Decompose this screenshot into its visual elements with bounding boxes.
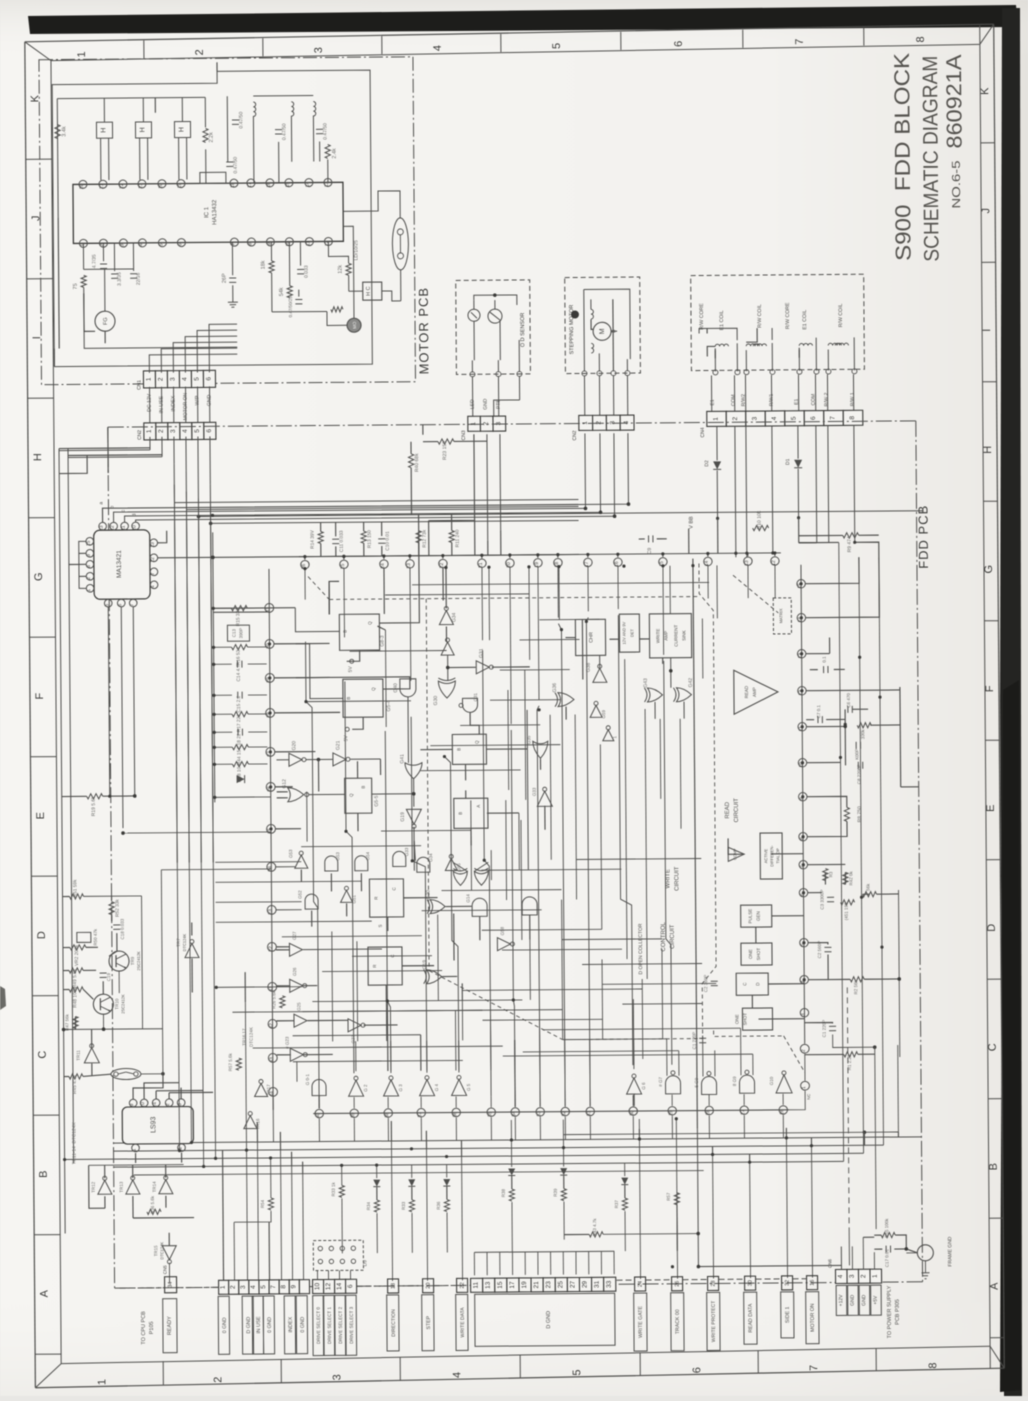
svg-text:20: 20 (79, 183, 85, 189)
svg-text:390P: 390P (238, 628, 243, 639)
svg-text:R51 59k: R51 59k (72, 879, 78, 898)
svg-text:13: 13 (99, 525, 105, 531)
svg-text:1: 1 (872, 1274, 879, 1278)
svg-text:SINK: SINK (681, 630, 686, 641)
svg-text:COM: COM (811, 394, 817, 406)
svg-text:G 3: G 3 (398, 1084, 403, 1092)
svg-text:G 2: G 2 (363, 1084, 368, 1092)
svg-text:E1 COIL: E1 COIL (802, 310, 808, 330)
svg-text:C9: C9 (647, 547, 653, 554)
resistor 54k (287, 286, 292, 298)
mode box (200, 172, 226, 183)
DS label boxes (313, 1296, 324, 1356)
svg-text:1: 1 (582, 421, 589, 425)
gate G34a buf (439, 610, 453, 624)
capacitor C1 220P b (699, 1037, 706, 1039)
svg-text:6: 6 (810, 416, 817, 420)
wire write gates (599, 655, 601, 668)
wire fg (82, 243, 84, 269)
transistor TR14 buf (159, 1180, 173, 1194)
svg-text:12: 12 (110, 525, 116, 531)
svg-text:H: H (178, 127, 185, 132)
wires CN1-CN2 (149, 387, 151, 423)
box WRITE AMP CURRENT SINK (649, 614, 691, 658)
gate G27b buf (348, 1019, 361, 1032)
svg-text:25: 25 (557, 1281, 564, 1289)
gate TR16 buf (244, 1116, 257, 1129)
stepping motor boundary (565, 277, 641, 374)
svg-text:TO POWER SUPPLY: TO POWER SUPPLY (887, 1285, 893, 1338)
svg-text:10: 10 (314, 1283, 321, 1291)
svg-text:0.033: 0.033 (304, 265, 310, 278)
svg-text:CN1: CN1 (136, 380, 142, 390)
diode D1 (794, 460, 802, 468)
svg-text:2: 2 (860, 1274, 867, 1278)
svg-text:54k: 54k (279, 287, 285, 296)
MO motor circle (347, 318, 361, 332)
svg-text:17: 17 (509, 1281, 516, 1289)
svg-text:4: 4 (451, 1372, 463, 1378)
wire g row (276, 949, 290, 951)
svg-text:R49 5.6k: R49 5.6k (72, 968, 78, 988)
capacitor 0.033m (297, 268, 304, 270)
svg-text:TR9: TR9 (130, 956, 135, 965)
svg-text:5: 5 (194, 429, 201, 433)
svg-text:17: 17 (247, 182, 253, 188)
dashed link cn5 (120, 1287, 165, 1289)
wire bus low1 (113, 1137, 921, 1143)
resistor R43 4.7k (589, 1232, 603, 1237)
coil wires (226, 96, 229, 162)
svg-text:D GND: D GND (246, 1316, 252, 1333)
resistor R51 59k (70, 894, 84, 899)
wire g20-21 (276, 759, 288, 761)
svg-text:2: 2 (165, 1103, 171, 1106)
svg-text:FRAME GND: FRAME GND (947, 1236, 953, 1266)
wire bus top h5 (216, 62, 218, 71)
svg-text:4: 4 (837, 1274, 844, 1278)
gate G14b and (522, 897, 537, 915)
svg-text:TO CPU PCB: TO CPU PCB (141, 1311, 147, 1345)
svg-text:3: 3 (752, 416, 759, 420)
IC LS93 (122, 1107, 193, 1145)
svg-text:P105: P105 (149, 1321, 155, 1334)
svg-text:G25: G25 (296, 1002, 301, 1011)
svg-text:1: 1 (713, 417, 720, 421)
svg-text:C19: C19 (106, 973, 111, 982)
svg-text:J: J (980, 208, 992, 214)
svg-text:11: 11 (305, 241, 311, 246)
svg-text:WRITE PROTECT: WRITE PROTECT (711, 1301, 717, 1342)
svg-text:R11 240: R11 240 (455, 529, 461, 547)
hall sensors H1-H3 (96, 122, 112, 138)
svg-text:34: 34 (168, 1282, 174, 1288)
svg-text:32: 32 (785, 1280, 791, 1286)
svg-text:1: 1 (146, 429, 153, 433)
svg-text:4.7/35: 4.7/35 (91, 254, 97, 268)
svg-text:9: 9 (290, 1285, 297, 1289)
svg-text:COM: COM (731, 394, 737, 406)
svg-text:3: 3 (170, 429, 177, 433)
resistor R26 5.6k (280, 996, 285, 1008)
svg-text:R37: R37 (614, 1200, 619, 1209)
svg-text:G53: G53 (288, 849, 293, 858)
gate G12 nor (288, 788, 304, 802)
wire long run e (444, 756, 458, 1072)
svg-text:5: 5 (193, 377, 200, 381)
svg-text:22/16: 22/16 (136, 272, 142, 285)
svg-text:2.2k: 2.2k (209, 132, 215, 143)
svg-text:TR13: TR13 (119, 1181, 124, 1193)
svg-text:ONE: ONE (748, 949, 753, 959)
svg-text:G31: G31 (479, 648, 485, 658)
svg-text:R23 150: R23 150 (442, 441, 448, 460)
svg-text:LS93: LS93 (150, 1117, 157, 1134)
scan black bar right (1000, 8, 1022, 1396)
diode resistor row (373, 1180, 380, 1187)
capacitor C7 0.1 (817, 716, 819, 723)
svg-text:14: 14 (305, 182, 311, 188)
capacitor 0.47/50 mid (226, 161, 233, 163)
svg-text:3: 3 (313, 47, 325, 53)
svg-text:MATRIX: MATRIX (778, 608, 783, 623)
wire bus h3 (199, 511, 924, 517)
svg-text:# G7: # G7 (658, 1076, 663, 1086)
svg-text:LED: LED (470, 399, 476, 409)
connector CN2b (579, 415, 593, 430)
wire right verticals low (875, 1047, 876, 1229)
resistor R55 100k (881, 1232, 895, 1237)
diode R39 (560, 1168, 567, 1175)
capacitor 12k (346, 263, 351, 275)
dashed diag to NC (784, 1036, 805, 1073)
capacitor 0.47/50 a (232, 119, 239, 121)
capacitor 3.3/35 (111, 273, 118, 275)
svg-text:21: 21 (533, 1281, 540, 1289)
diode R38 (508, 1169, 515, 1176)
svg-text:GEN: GEN (756, 911, 761, 921)
svg-text:IC 1: IC 1 (204, 206, 210, 218)
svg-text:R8 750: R8 750 (857, 806, 863, 822)
motor circuit outline box (52, 70, 372, 366)
svg-text:10: 10 (132, 525, 138, 531)
svg-text:8: 8 (247, 242, 253, 245)
svg-text:0.47/50: 0.47/50 (281, 123, 287, 140)
svg-text:B: B (456, 748, 461, 751)
gate G51 inv (340, 890, 352, 902)
svg-text:NO.6-5: NO.6-5 (951, 160, 963, 208)
capacitor C6 470 (847, 706, 849, 713)
svg-text:12: 12 (325, 1282, 332, 1290)
svg-text:18k: 18k (261, 260, 267, 269)
connector SIDE 1 (782, 1276, 793, 1290)
flip-flop L2 (368, 947, 402, 985)
resistor R52 33k (109, 902, 114, 915)
capacitor C2 560P (824, 946, 831, 948)
svg-text:Q: Q (371, 687, 376, 691)
svg-text:D: D (36, 931, 48, 939)
FDD PCB boundary dash-dot (108, 421, 916, 427)
resistor R1 2.25 (844, 1052, 858, 1057)
wire v drops mid (514, 1040, 517, 1107)
resistor R36 5.6k b (147, 1209, 161, 1214)
svg-text:G53: G53 (335, 852, 340, 861)
svg-text:4: 4 (138, 243, 144, 246)
junction dots field (268, 642, 271, 645)
flip-flop CD (736, 973, 768, 995)
svg-text:I: I (981, 329, 993, 332)
svg-text:ONE: ONE (734, 1014, 739, 1024)
gate G58 inv (497, 938, 510, 951)
svg-text:0.47/50: 0.47/50 (322, 123, 328, 140)
svg-text:TR10: TR10 (114, 998, 119, 1010)
svg-text:R/W2: R/W2 (741, 394, 747, 407)
svg-text:27: 27 (569, 1281, 576, 1289)
gate G31 nand (462, 698, 477, 712)
svg-text:G54: G54 (365, 851, 370, 860)
svg-text:C6 470: C6 470 (846, 693, 851, 708)
svg-text:R33: R33 (401, 1201, 406, 1210)
connector MOTOR ON (807, 1276, 818, 1290)
svg-text:R42 0k: R42 0k (848, 870, 853, 885)
gate G53 inv (295, 855, 308, 868)
MOTOR PCB boundary (dash-dot) (39, 57, 416, 385)
svg-text:8 G9: 8 G9 (732, 1076, 737, 1086)
capacitor C11 0.033 (332, 538, 339, 540)
resistor R51 190 (841, 900, 855, 905)
wire long run l (664, 661, 672, 1065)
wire long run g (511, 730, 515, 1096)
svg-text:3: 3 (177, 1103, 183, 1106)
svg-text:DET: DET (629, 628, 634, 637)
svg-text:TR11: TR11 (76, 1050, 81, 1061)
svg-text:3: 3 (849, 1274, 856, 1278)
wire long run k (618, 615, 633, 1065)
box ONE SHOT 2 (742, 1008, 772, 1030)
gate G40 and (400, 679, 416, 697)
wire ff2 (296, 643, 343, 698)
svg-text:MO: MO (352, 321, 357, 329)
svg-text:H: H (32, 453, 44, 461)
svg-text:DTC124K: DTC124K (159, 1242, 164, 1260)
svg-text:R39: R39 (553, 1188, 558, 1197)
svg-text:2: 2 (158, 429, 165, 433)
wire long run b (345, 681, 354, 1073)
wire r40 (410, 442, 412, 454)
wires U2 left (79, 541, 86, 588)
resistor 330k a (857, 723, 871, 728)
resistor 18k (269, 261, 274, 273)
resistor R55 1k (339, 1185, 344, 1197)
svg-text:C: C (37, 1051, 49, 1059)
gate G30 xor (438, 681, 455, 698)
svg-text:2: 2 (732, 417, 739, 421)
wire long run j (586, 617, 592, 1095)
svg-text:G33: G33 (532, 787, 537, 796)
svg-text:3: 3 (495, 421, 502, 425)
svg-text:G 0-1: G 0-1 (305, 1073, 310, 1085)
wire h800s (414, 841, 415, 861)
svg-text:D: D (986, 924, 998, 932)
resistor R 2.2k (203, 128, 208, 142)
frame corner slash bottom-left (35, 1364, 61, 1388)
svg-text:3: 3 (800, 1013, 806, 1016)
wire frame gnd (874, 1234, 881, 1236)
resistor VR2 200k (70, 945, 86, 950)
transistor TR15 buf (162, 1246, 176, 1260)
svg-text:16: 16 (810, 1280, 816, 1286)
wire lower mid (270, 242, 272, 261)
svg-text:B: B (38, 1170, 50, 1177)
wires bottom pins (318, 1098, 320, 1109)
svg-text:R52 33k: R52 33k (115, 899, 121, 918)
svg-text:23: 23 (406, 563, 412, 569)
svg-text:3.3/35: 3.3/35 (117, 272, 123, 286)
svg-text:TR15: TR15 (153, 1245, 158, 1257)
svg-text:CN4: CN4 (700, 427, 706, 437)
svg-text:DRIVE SELECT 0: DRIVE SELECT 0 (316, 1307, 321, 1345)
svg-text:2.4k: 2.4k (332, 148, 338, 159)
box 12V 5V DET (619, 614, 639, 652)
gate G53b nand (325, 856, 338, 871)
svg-text:WRITE GATE: WRITE GATE (638, 1306, 644, 1338)
wire bus h2 (186, 506, 578, 509)
connector WRITE DATA (457, 1278, 468, 1292)
svg-text:1: 1 (801, 1086, 807, 1089)
svg-text:21: 21 (99, 183, 105, 189)
svg-text:SCHEMATIC DIAGRAM: SCHEMATIC DIAGRAM (919, 56, 944, 262)
svg-text:G58: G58 (500, 926, 505, 935)
wire ls93 (133, 1074, 163, 1099)
connector CN5 odd cells (471, 1278, 483, 1292)
svg-text:2: 2 (483, 421, 490, 425)
svg-text:3: 3 (609, 421, 616, 425)
svg-text:16: 16 (266, 182, 272, 188)
wire trans area (63, 895, 70, 897)
wire coil drops (278, 142, 280, 183)
gate COMP (728, 847, 744, 861)
read amp triangle (734, 670, 778, 714)
wire hall top feed (154, 98, 156, 113)
svg-text:+12V: +12V (838, 1294, 844, 1307)
svg-text:G8-3: G8-3 (379, 635, 385, 646)
svg-text:12: 12 (324, 240, 330, 246)
gate G20 buffer (289, 753, 302, 766)
connector STEP (423, 1279, 434, 1293)
capacitor C2 360P (711, 980, 718, 982)
svg-text:R/W 2: R/W 2 (824, 392, 830, 406)
svg-text:R34: R34 (366, 1202, 371, 1211)
transistor TR10 (93, 994, 113, 1014)
svg-text:0.47/50: 0.47/50 (233, 157, 239, 174)
svg-text:8: 8 (86, 565, 92, 568)
svg-text:R/W 1: R/W 1 (850, 392, 856, 406)
wire hybrid top bus (299, 553, 781, 557)
wire read rc cluster (806, 689, 900, 692)
connector CN4 (707, 411, 727, 426)
svg-text:G 6: G 6 (641, 1082, 646, 1090)
svg-text:WRITE DATA: WRITE DATA (460, 1307, 466, 1338)
resistor R48 100k (69, 987, 83, 992)
capacitor 0.47/50/25 (295, 298, 302, 300)
svg-text:14: 14 (336, 1282, 343, 1290)
svg-text:6: 6 (673, 41, 685, 47)
flip-flop L1 (369, 879, 403, 917)
wire long run c (385, 731, 391, 1073)
wires RC ladder (213, 607, 231, 609)
svg-text:6: 6 (691, 1367, 703, 1373)
motor coils (253, 102, 256, 116)
svg-text:20: 20 (506, 562, 512, 568)
svg-text:CN2: CN2 (137, 430, 143, 440)
wires U2 abcd (102, 504, 578, 522)
svg-text:0.47/50: 0.47/50 (238, 112, 244, 129)
wires motor to CN1 (149, 354, 237, 373)
svg-text:R40 68k: R40 68k (414, 453, 420, 472)
gate TR17 buf (255, 1083, 268, 1096)
svg-text:10: 10 (140, 1102, 146, 1108)
svg-text:26P: 26P (222, 273, 228, 283)
gate G42 xor (676, 688, 691, 702)
capacitor C10 0.01 (378, 538, 385, 540)
wire long run f (483, 650, 492, 1096)
svg-text:DRIVE SELECT 2: DRIVE SELECT 2 (338, 1306, 343, 1344)
wire gates to row (296, 1062, 298, 1082)
resistor R10 10k (753, 525, 769, 530)
svg-text:1: 1 (220, 1285, 227, 1289)
svg-text:G14: G14 (466, 894, 471, 903)
svg-text:G: G (33, 572, 45, 581)
svg-text:2: 2 (86, 577, 92, 580)
wire read right misc (807, 864, 825, 866)
resistor 75 (81, 275, 86, 287)
resistor R47 56k (73, 1016, 78, 1028)
xor pair crossed (453, 871, 467, 885)
gate G14 and (472, 898, 487, 916)
RW core coils (715, 344, 728, 346)
wire cn3 drops (428, 434, 475, 520)
svg-text:ACTIVE: ACTIVE (763, 848, 768, 863)
svg-text:CN3: CN3 (461, 430, 467, 440)
svg-text:C17 0.01: C17 0.01 (884, 1248, 889, 1267)
OD sensor terminals (470, 372, 475, 377)
svg-text:B: B (458, 812, 463, 815)
svg-text:6: 6 (117, 603, 123, 606)
svg-text:R3: R3 (828, 871, 833, 877)
scan speck left edge (0, 986, 6, 1010)
svg-text:18: 18 (391, 1283, 397, 1289)
svg-text:5V: 5V (348, 666, 354, 673)
capacitor K00P (855, 742, 857, 749)
gate G0-1 and (312, 1079, 326, 1095)
svg-text:21: 21 (138, 183, 144, 189)
svg-text:M: M (599, 328, 606, 334)
gate G54 nand (355, 856, 368, 871)
wire comb bus (474, 1251, 614, 1252)
wire right verticals (693, 559, 697, 1129)
svg-text:G52: G52 (297, 890, 302, 899)
svg-text:K00P: K00P (854, 749, 859, 760)
svg-text:FDD PCB: FDD PCB (915, 505, 931, 569)
transistor TR11 buf (84, 1048, 99, 1063)
svg-text:CN5: CN5 (162, 1265, 167, 1275)
svg-text:H: H (139, 127, 146, 132)
gate G20x xor (430, 900, 445, 914)
OD sensor top wire (474, 295, 517, 305)
svg-text:7: 7 (150, 572, 156, 575)
capacitor 4.7/35 (100, 263, 107, 265)
transistor TR12 buf (98, 1180, 112, 1194)
